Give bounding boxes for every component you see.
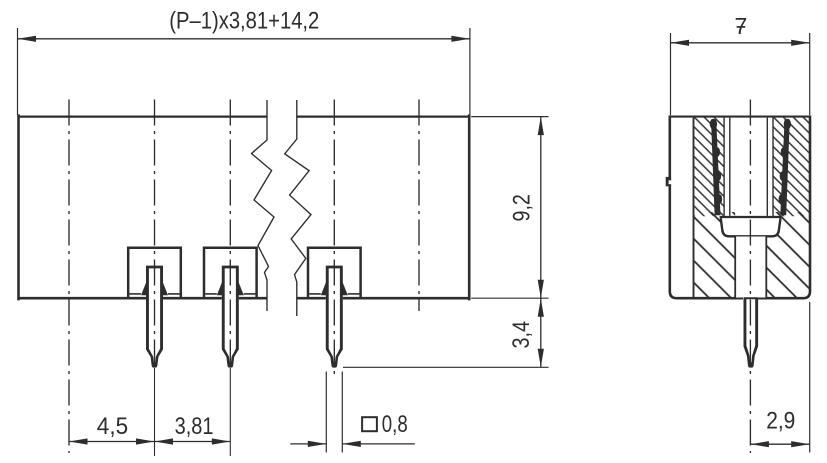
svg-text:4,5: 4,5 <box>97 413 128 440</box>
svg-text:(P–1)x3,81+14,2: (P–1)x3,81+14,2 <box>169 8 319 35</box>
svg-text:2,9: 2,9 <box>766 407 795 434</box>
svg-text:3,4: 3,4 <box>508 321 535 349</box>
svg-text:0,8: 0,8 <box>382 411 408 438</box>
svg-text:9,2: 9,2 <box>509 194 536 221</box>
svg-text:3,81: 3,81 <box>175 413 214 440</box>
